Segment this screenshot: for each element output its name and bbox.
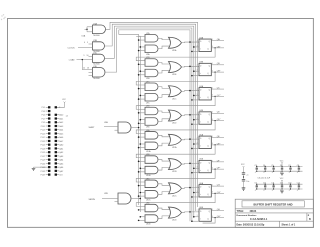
ground cap row 1 [280,171,284,175]
wire QN output U3B [211,71,224,73]
wire clock to U4A [193,95,199,97]
power VCC cap row 1 [280,160,284,166]
capacitor C7 [288,165,291,174]
wire inputs U10D [138,216,145,221]
wire inputs U8A [138,136,145,138]
wire inputs U10C [138,192,145,197]
connector J1 pin 13 [41,129,51,132]
svg-text:40164: 40164 [250,210,257,213]
wire inputs U10B [138,167,145,172]
connector J1 pin 9 [42,121,51,124]
wire U12A to D pin [182,138,200,140]
or-gate U11A [169,37,182,52]
svg-text:>: > [200,217,201,220]
connector J1 pin 38 [55,174,64,177]
wire feedback QC to next stage [136,96,215,109]
ground cap row 2 [280,189,284,193]
svg-text:10: 10 [87,55,89,57]
wire clear pin U5A [191,148,199,150]
and-gate U9D [145,118,158,129]
svg-text:QE*: QE* [217,143,221,145]
svg-text:C8: C8 [297,165,299,167]
wire U2B output [131,198,141,200]
connector J1 pin 28 [55,155,64,158]
connector J1 pin 21 [41,144,51,147]
wire feedback QD to next stage [136,121,215,134]
ground connector [32,167,46,170]
connector J1 pin 19 [41,140,51,143]
wire inputs U8B [138,161,145,163]
svg-text:P1-21: P1-21 [41,145,46,147]
svg-text:QA-3: QA-3 [59,155,63,158]
svg-text:U12C: U12C [172,195,177,197]
svg-text:C5: C5 [271,165,273,167]
and-gate U9A [145,45,158,56]
svg-text:QG: QG [217,185,221,187]
wire QN output U5B [211,168,224,170]
svg-text:P1-11: P1-11 [41,126,45,128]
connector J1 pin 27 [41,155,51,158]
connector J1 pin 14 [55,129,64,132]
wire U7B to U11B [158,63,170,65]
wire clear pin U3A [191,51,199,53]
and-gate U9B [145,69,158,80]
svg-text:QD*: QD* [217,119,221,121]
capacitor C2 [242,180,249,188]
svg-text:P1-29: P1-29 [41,160,46,162]
svg-text:SHIFT: SHIFT [89,127,96,129]
wire clock to U5B [193,167,199,169]
connector J1 pin 34 [55,166,64,169]
wire Q output QA [211,38,224,41]
svg-text:C12: C12 [280,183,283,185]
and-gate U10C [145,191,158,202]
svg-text:U1C: U1C [93,53,98,55]
connector J1 pin 20 [55,140,64,143]
svg-text:3: 3 [197,142,198,144]
svg-text:2: 2 [197,210,198,212]
svg-text:QA-7: QA-7 [59,170,63,173]
svg-text:2: 2 [197,113,198,115]
wire inputs U10A [138,143,145,148]
and-gate U9C [145,94,158,105]
wire clock to U3A [193,46,199,48]
wire SHIFT input U2A [89,127,119,131]
wire clock to U6B [193,216,199,218]
and-gate U10A [145,142,158,153]
and-gate U7C [145,81,158,90]
or-gate U12C [169,183,182,198]
svg-text:>: > [200,96,201,99]
svg-text:P1-27: P1-27 [41,156,46,158]
svg-text:3: 3 [197,118,198,120]
svg-text:P1-1: P1-1 [42,107,46,109]
wire U11A to D pin [182,41,200,43]
connector J1 pin 18 [55,136,64,139]
svg-text:P1-17: P1-17 [41,137,46,139]
wire U10C to U12C [158,192,170,195]
svg-text:P1-23: P1-23 [41,148,46,150]
svg-text:+5: +5 [246,174,248,176]
capacitor C8 [297,165,300,174]
wire capacitor rail row 1 [256,166,303,171]
connector J1 pin 31 [41,162,51,165]
connector J1 pin 30 [55,159,64,162]
label pin numbers U5B [197,160,213,169]
svg-text:DA-4: DA-4 [59,129,63,132]
wire QN output U6B [211,216,224,218]
wire clear return U6B [203,218,216,223]
svg-text:Date: 3/05/2013 12:19:53p: Date: 3/05/2013 12:19:53p [237,224,265,227]
svg-text:.1: .1 [297,172,298,174]
svg-text:QA-6: QA-6 [59,166,63,169]
capacitor C13 [288,183,291,192]
connector J1 pin 15 [41,132,51,135]
wire shift data bus B [139,36,141,212]
svg-text:QA-2: QA-2 [59,151,63,154]
svg-text:U1A: U1A [93,22,98,25]
svg-text:3: 3 [197,215,198,217]
d-flip-flop U6B [199,207,211,221]
wire QN output U3A [211,45,224,48]
svg-text:QH*: QH* [217,216,221,218]
and-gate U8D [145,203,158,212]
svg-text:.1: .1 [263,190,264,192]
svg-text:3: 3 [197,94,198,96]
wire inputs U9C [138,95,145,100]
or-gate U11D [169,110,182,125]
svg-text:C11: C11 [271,183,274,185]
label pin numbers U5A [197,136,213,145]
svg-text:5: 5 [87,42,88,44]
nand-gate U1D [93,66,105,80]
connector J1 pin 24 [55,147,64,150]
svg-text:.1: .1 [263,172,264,174]
d-flip-flop U5B [199,159,211,173]
wire bus line 3 [105,26,194,217]
svg-text:P1-19: P1-19 [41,141,46,143]
svg-text:Sheet: 1 of 1: Sheet: 1 of 1 [282,224,296,227]
wire left data bus feed [119,30,139,34]
and-gate U10D [145,215,158,226]
wire U8C to U12C [158,184,170,186]
label capacitor values [258,178,271,180]
svg-text:3: 3 [197,167,198,169]
svg-text:74LS00: 74LS00 [93,35,100,37]
wire U12C to D pin [182,187,200,189]
wire CLOCK input U1B [68,42,93,50]
title block [235,199,313,227]
svg-text:>: > [200,193,201,196]
svg-text:U11C: U11C [172,98,177,100]
wire clear pin U3B [191,75,199,77]
or-gate U12B [169,159,182,174]
and-gate U2B [104,193,131,204]
and-gate U8A [145,129,158,139]
label pin numbers U4A [197,87,213,96]
svg-text:SERIN: SERIN [89,199,96,201]
svg-text:.1: .1 [255,172,256,174]
connector J1 pin 22 [55,144,64,147]
wire Q output QG [211,185,224,187]
label pin numbers U6A [197,185,213,194]
wire U7D to U11D [158,111,170,113]
wire SERIN input U2B [89,199,119,202]
connector J1 pin 33 [41,166,51,169]
wire LOAD input U1C [69,55,93,70]
connector J1 pin 12 [55,125,64,128]
wire inputs U7D [138,112,145,114]
wire feedback QF to next stage [136,169,215,182]
svg-text:BUFFER SHIFT REGISTER AND: BUFFER SHIFT REGISTER AND [254,202,293,206]
wire U2A output [131,127,139,129]
wire clear pin U4A [191,99,199,101]
wire U7C to U11C [158,87,170,89]
wire feedback QB to next stage [136,72,215,85]
label pin numbers U3B [197,63,213,72]
svg-text:U11D: U11D [172,123,177,125]
wire QN output U4B [211,119,224,121]
svg-text:C10: C10 [263,183,266,185]
wire U8A to U12A [158,135,170,137]
svg-text:DA-5: DA-5 [59,132,63,135]
svg-text:U1D: U1D [93,66,98,68]
wire Q output QE [211,136,224,138]
svg-text:U12D: U12D [172,220,177,222]
svg-text:P1-5: P1-5 [42,115,46,117]
connector J1 pin 23 [41,147,51,150]
and-gate U7B [145,57,158,66]
svg-text:10u: 10u [246,181,249,183]
wire U8B to U12B [158,160,170,162]
wire U12D to D pin [182,211,200,213]
capacitor C6 [280,165,283,174]
capacitor C11 [271,183,274,192]
svg-text:C13: C13 [288,183,291,185]
svg-text:P1-7: P1-7 [42,118,46,120]
connector J1 pin 35 [41,170,51,173]
wire feedback QA to next stage [136,48,215,61]
connector J1 pin 7 [42,117,51,120]
svg-text:2: 2 [197,137,198,139]
capacitor C5 [271,165,274,174]
svg-text:QA-5: QA-5 [59,162,63,165]
d-flip-flop U3A [199,36,211,51]
d-flip-flop U4B [199,110,211,124]
svg-text:.1: .1 [288,190,289,192]
ground bulk [242,188,246,191]
wire U8D to U12D [158,208,170,210]
wire clear pin U5B [191,172,199,174]
svg-text:C9: C9 [255,183,257,185]
wire clear pin U6B [191,220,199,222]
svg-text:P1-15: P1-15 [41,133,46,135]
svg-text:DA-1: DA-1 [59,117,63,120]
or-gate U11C [169,86,182,101]
svg-text:C3-C14 0.1uF: C3-C14 0.1uF [258,178,271,180]
or-gate U11B [169,62,182,77]
svg-text:4: 4 [84,42,85,44]
svg-text:C4: C4 [263,165,265,167]
wire clock bus line 1 [106,22,198,207]
svg-text:DA-6: DA-6 [59,136,63,139]
wire clear pin U4B [191,123,199,125]
wire U10A to U12A [158,143,170,146]
svg-text:3: 3 [197,70,198,72]
wire Q output QC [211,87,224,89]
capacitor C9 [255,183,258,192]
wire clock to U3B [193,70,199,72]
svg-text:C14: C14 [297,183,300,185]
wire QN output U6A [211,192,224,194]
wire capacitor rail row 2 [256,184,303,189]
svg-text:LOAD: LOAD [69,58,75,61]
svg-text:C7: C7 [288,165,290,167]
wire U11D to D pin [182,114,200,116]
wire Q output QH [211,209,224,211]
svg-text:>: > [200,48,201,51]
wire QN output U5A [211,143,224,145]
and-gate U2A [104,121,131,133]
wire clear pin U6A [191,196,199,198]
svg-text:DA-2: DA-2 [59,121,63,124]
wire clock to U4B [193,119,199,121]
capacitor C14 [297,183,300,192]
wire U9C to U11C [158,95,170,98]
wire inputs U7C [138,88,145,90]
svg-text:.1: .1 [271,190,272,192]
connector J1 pin 10 [55,121,64,124]
svg-text:3: 3 [197,191,198,193]
label pin numbers U6B [197,209,213,218]
svg-text:U10C: U10C [146,199,151,201]
svg-text:P1-25: P1-25 [41,152,46,154]
connector J1 pin 1 [42,106,51,109]
svg-text:.1: .1 [255,190,256,192]
connector J1 pin 16 [55,132,64,135]
wire inputs U7B [138,64,145,66]
and-gate U8B [145,154,158,163]
svg-text:>: > [200,145,201,148]
wire inputs U8D [138,209,145,211]
wire U9B to U11B [158,70,170,73]
svg-text:2: 2 [197,162,198,164]
connector J1 pin 5 [42,114,51,117]
svg-text:P1-31: P1-31 [41,163,46,165]
d-flip-flop U4A [199,85,211,100]
svg-text:TITLE:: TITLE: [237,210,245,213]
svg-text:9: 9 [84,55,85,57]
connector J1 pin 2 [55,106,61,109]
wire QN output U4A [211,95,224,97]
wire U12B to D pin [182,163,200,165]
power VCC connector [57,99,67,107]
wire clock to U6A [193,192,199,194]
nand-gate U1A [93,22,106,36]
svg-text:QG*: QG* [217,192,221,194]
svg-text:QB*: QB* [217,71,221,73]
nand-gate U1C [93,53,105,66]
svg-text:C-CA-NUM-0-1: C-CA-NUM-0-1 [250,218,268,221]
svg-text:>: > [200,72,201,75]
capacitor C3 [255,165,258,174]
wire feedback QE to next stage [136,145,215,158]
connector J1 pin 36 [55,170,64,173]
and-gate U8C [145,178,158,187]
svg-text:x2: x2 [66,116,68,118]
d-flip-flop U3B [199,62,211,76]
svg-text:B: B [309,218,311,221]
capacitor C12 [280,183,283,192]
svg-text:CLOCK: CLOCK [68,48,76,50]
wire feedback QG to next stage [136,193,215,206]
and-gate U7A [145,32,158,42]
svg-text:QC*: QC* [217,95,221,97]
svg-text:Document Number:: Document Number: [237,214,258,217]
capacitor C4 [263,165,266,174]
capacitor C10 [263,183,266,192]
wire U11B to D pin [182,66,200,68]
power VCC bulk [241,164,245,173]
wire U9D to U11D [158,119,170,122]
svg-text:2: 2 [197,65,198,67]
wire U11C to D pin [182,90,200,92]
d-flip-flop U6A [199,182,211,197]
svg-text:QA-0: QA-0 [59,144,63,147]
svg-text:C3: C3 [255,165,257,167]
wire inputs U9A [138,46,145,51]
connector J1 pin 8 [55,117,64,120]
svg-text:DA-7: DA-7 [59,140,63,143]
svg-text:.1: .1 [297,190,298,192]
svg-text:.1: .1 [288,172,289,174]
svg-text:>: > [200,120,201,123]
d-flip-flop U5A [199,133,211,148]
wire inputs U8C [138,185,145,187]
wire inputs U7A [136,36,145,40]
svg-text:P1-37: P1-37 [41,175,46,177]
svg-text:.1: .1 [271,172,272,174]
svg-text:3: 3 [197,45,198,47]
svg-text:QA*: QA* [217,45,221,48]
connector J1 pin 26 [55,151,64,154]
nand-gate U1B [93,40,105,53]
svg-text:13: 13 [87,67,89,69]
wire clear line [119,30,190,221]
wire clock line [105,28,192,221]
svg-text:P1-9: P1-9 [42,122,46,124]
wire U7A to U11A [158,38,170,40]
wire U1A inputs [82,27,93,38]
and-gate U7D [145,106,158,115]
wire Q output QB [211,63,224,65]
or-gate U12A [169,134,182,149]
wire U9A to U11A [158,46,170,49]
node flag D0 bus [66,116,68,118]
connector J1 pin 29 [41,159,51,162]
svg-text:QA-1: QA-1 [59,147,63,150]
svg-text:>: > [200,169,201,172]
svg-text:QF*: QF* [217,168,221,170]
svg-text:P1-13: P1-13 [41,130,46,132]
wire Q output QD [211,112,224,114]
label pin numbers U4B [197,112,213,121]
svg-text:12: 12 [83,67,85,69]
svg-text:P1-35: P1-35 [41,171,46,173]
connector J1 pin 11 [41,125,51,128]
connector J1 pin 32 [55,162,64,165]
svg-text:QA-4: QA-4 [59,159,63,162]
